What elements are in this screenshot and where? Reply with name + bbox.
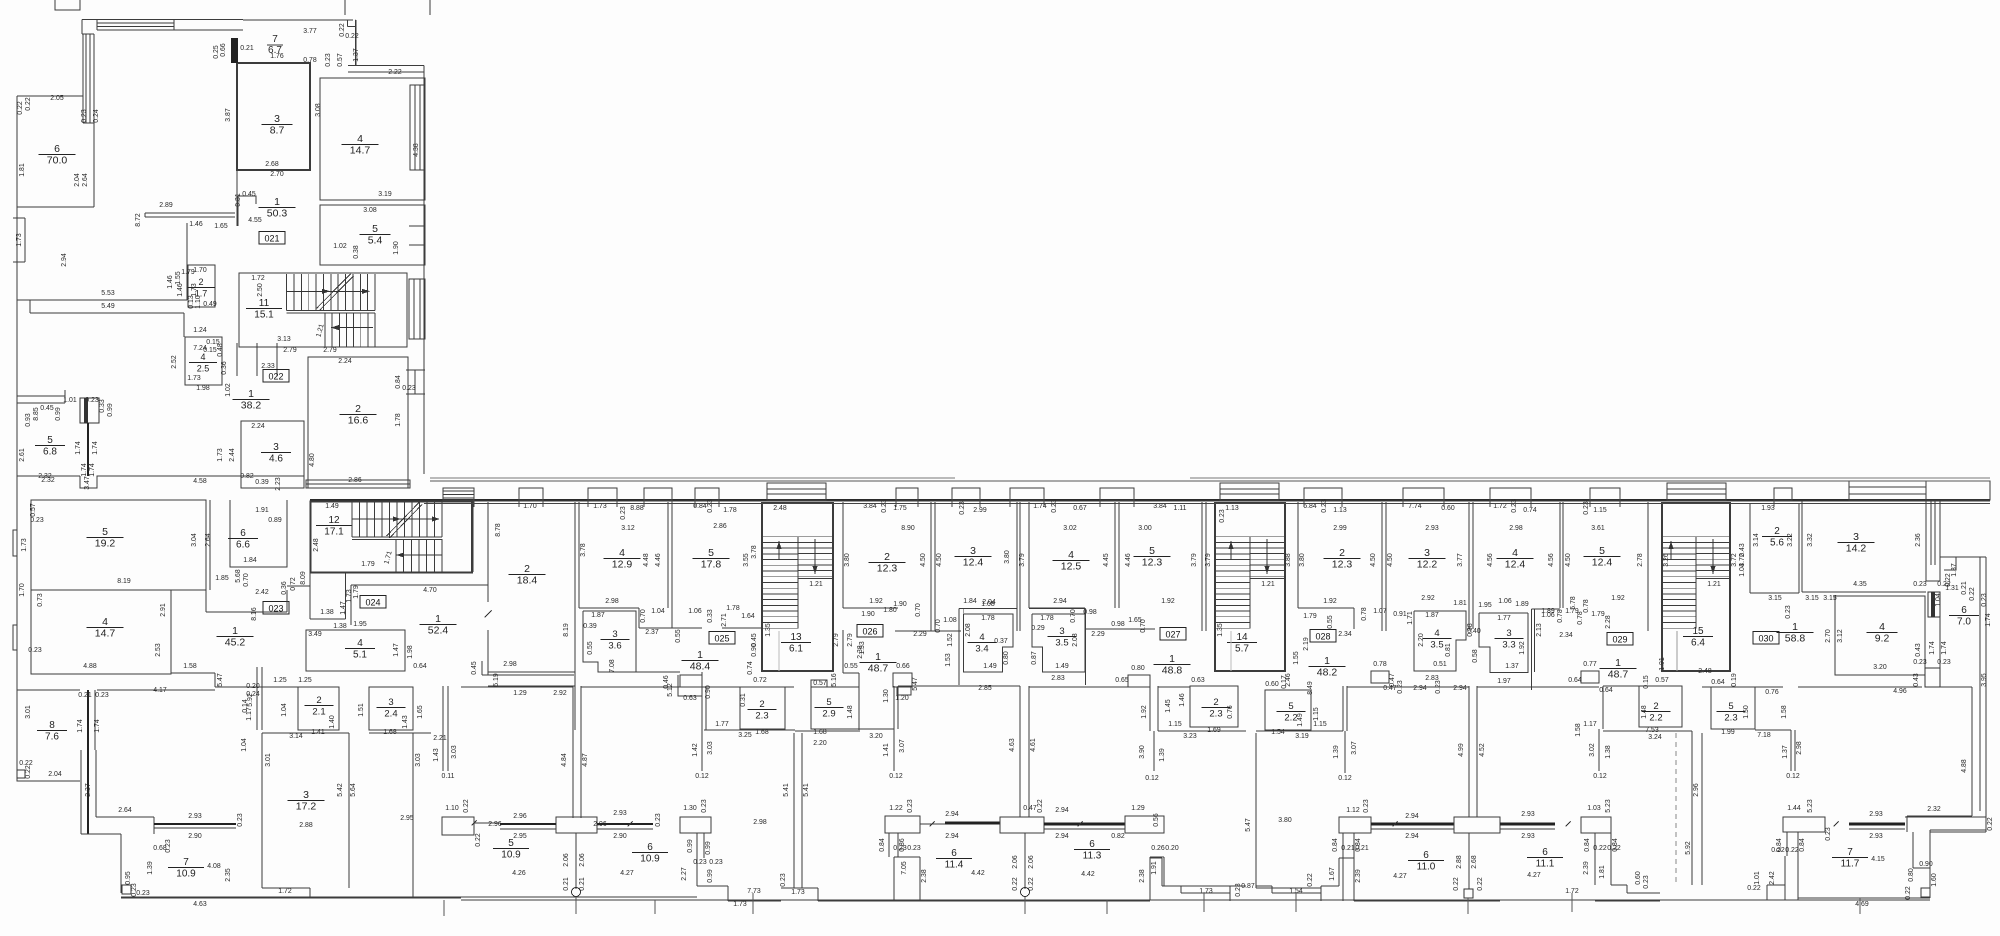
svg-text:0.22: 0.22: [1477, 877, 1484, 891]
svg-text:1.73: 1.73: [1199, 888, 1213, 895]
svg-text:2.64: 2.64: [82, 173, 89, 187]
svg-text:8: 8: [49, 720, 55, 731]
svg-text:1.35: 1.35: [765, 623, 772, 637]
svg-text:18.4: 18.4: [517, 575, 538, 587]
svg-text:0.63: 0.63: [683, 695, 697, 702]
svg-text:4.88: 4.88: [83, 663, 97, 670]
svg-text:1.43: 1.43: [433, 748, 440, 762]
svg-text:1.41: 1.41: [883, 743, 890, 757]
svg-text:4.50: 4.50: [920, 553, 927, 567]
svg-text:2.94: 2.94: [1055, 833, 1069, 840]
svg-text:2.88: 2.88: [299, 822, 313, 829]
svg-text:2.79: 2.79: [833, 633, 840, 647]
svg-text:0.57: 0.57: [30, 503, 37, 517]
svg-text:0.23: 0.23: [237, 813, 244, 827]
svg-text:2.37: 2.37: [85, 783, 92, 797]
svg-text:4.50: 4.50: [1387, 553, 1394, 567]
svg-text:6.8: 6.8: [43, 447, 57, 458]
svg-text:1.79: 1.79: [1591, 611, 1605, 618]
svg-text:1.92: 1.92: [1141, 705, 1148, 719]
svg-text:0.21: 0.21: [1355, 845, 1369, 852]
svg-text:1.21: 1.21: [1707, 581, 1721, 588]
svg-text:2.2: 2.2: [1284, 713, 1297, 724]
svg-text:1.70: 1.70: [193, 267, 207, 274]
svg-text:2.94: 2.94: [1413, 685, 1427, 692]
svg-text:0.76: 0.76: [1227, 705, 1234, 719]
svg-text:7: 7: [272, 34, 278, 45]
svg-text:8.7: 8.7: [270, 125, 285, 137]
svg-text:3.24: 3.24: [1648, 734, 1662, 741]
svg-text:5.47: 5.47: [912, 677, 919, 691]
svg-text:0.25: 0.25: [213, 45, 220, 59]
svg-text:3.90: 3.90: [1139, 745, 1146, 759]
svg-text:2.44: 2.44: [229, 448, 236, 462]
svg-text:5: 5: [1728, 701, 1733, 712]
svg-text:0.72: 0.72: [290, 577, 297, 591]
svg-text:3.15: 3.15: [1805, 595, 1819, 602]
svg-text:2.1: 2.1: [312, 707, 325, 718]
svg-text:021: 021: [264, 234, 279, 244]
svg-text:1.74: 1.74: [1929, 641, 1936, 655]
svg-text:4.08: 4.08: [207, 863, 221, 870]
svg-text:0.67: 0.67: [1073, 505, 1087, 512]
svg-text:2.50: 2.50: [257, 283, 264, 297]
svg-text:3.07: 3.07: [899, 739, 906, 753]
svg-text:5.23: 5.23: [1605, 799, 1612, 813]
svg-text:3: 3: [1853, 531, 1859, 543]
svg-text:1.78: 1.78: [395, 413, 402, 427]
svg-text:2.86: 2.86: [713, 523, 727, 530]
svg-text:3.20: 3.20: [869, 733, 883, 740]
svg-text:0.22: 0.22: [463, 799, 470, 813]
svg-text:0.23: 0.23: [28, 647, 42, 654]
svg-text:4.88: 4.88: [1961, 759, 1968, 773]
svg-text:5.12: 5.12: [667, 683, 674, 697]
svg-text:1.03: 1.03: [1587, 805, 1601, 812]
svg-text:3.00: 3.00: [1138, 525, 1152, 532]
svg-text:0.23: 0.23: [325, 53, 332, 67]
svg-text:1.72: 1.72: [278, 888, 292, 895]
svg-text:1: 1: [248, 388, 254, 400]
svg-text:2.93: 2.93: [1521, 811, 1535, 818]
svg-text:1: 1: [1324, 655, 1330, 667]
svg-text:0.23: 0.23: [1785, 605, 1792, 619]
svg-text:2.94: 2.94: [1405, 833, 1419, 840]
svg-text:1.55: 1.55: [1293, 651, 1300, 665]
svg-text:1.52: 1.52: [947, 633, 954, 647]
svg-text:4.96: 4.96: [1893, 688, 1907, 695]
svg-text:0.22: 0.22: [1785, 847, 1799, 854]
svg-text:4.63: 4.63: [193, 901, 207, 908]
svg-text:0.64: 0.64: [413, 663, 427, 670]
svg-text:0.99: 0.99: [107, 403, 114, 417]
svg-text:4.56: 4.56: [1548, 553, 1555, 567]
svg-text:1.20: 1.20: [895, 695, 909, 702]
svg-text:4: 4: [1879, 621, 1885, 633]
svg-text:0.78: 0.78: [1373, 661, 1387, 668]
svg-text:0.66: 0.66: [896, 663, 910, 670]
svg-text:1.39: 1.39: [147, 861, 154, 875]
svg-text:0.70: 0.70: [640, 609, 647, 623]
svg-text:0.91: 0.91: [1393, 611, 1407, 618]
svg-text:19.2: 19.2: [95, 538, 116, 550]
svg-text:2: 2: [316, 695, 321, 706]
svg-text:2.9: 2.9: [822, 709, 835, 720]
svg-text:1.38: 1.38: [1605, 745, 1612, 759]
svg-text:1.15: 1.15: [1168, 721, 1182, 728]
svg-text:0.29: 0.29: [1031, 625, 1045, 632]
svg-text:2.28: 2.28: [1605, 615, 1612, 629]
svg-text:4: 4: [102, 616, 108, 628]
svg-text:4: 4: [619, 547, 625, 559]
svg-text:0.23: 0.23: [402, 385, 416, 392]
svg-text:1.81: 1.81: [1599, 865, 1606, 879]
svg-text:0.22: 0.22: [1969, 587, 1976, 601]
svg-text:8.90: 8.90: [901, 525, 915, 532]
svg-text:3.80: 3.80: [1004, 550, 1011, 564]
svg-text:1.21: 1.21: [1261, 581, 1275, 588]
svg-text:3.77: 3.77: [303, 28, 317, 35]
svg-text:2.64: 2.64: [205, 533, 212, 547]
svg-text:2.94: 2.94: [945, 811, 959, 818]
svg-text:4.45: 4.45: [1103, 553, 1110, 567]
svg-text:2.24: 2.24: [338, 358, 352, 365]
svg-text:2.3: 2.3: [755, 711, 768, 722]
svg-text:2.06: 2.06: [579, 853, 586, 867]
svg-text:2.79: 2.79: [283, 347, 297, 354]
svg-text:50.3: 50.3: [267, 208, 288, 220]
svg-text:1.60: 1.60: [1931, 873, 1938, 887]
svg-text:3.88: 3.88: [1285, 553, 1292, 567]
svg-text:1.78: 1.78: [723, 507, 737, 514]
svg-text:0.77: 0.77: [1583, 661, 1597, 668]
svg-text:1.43: 1.43: [402, 715, 409, 729]
svg-text:2.48: 2.48: [773, 505, 787, 512]
svg-text:8.19: 8.19: [563, 623, 570, 637]
svg-text:11.4: 11.4: [945, 860, 964, 871]
svg-text:0.22: 0.22: [1307, 873, 1314, 887]
svg-text:2: 2: [1213, 697, 1218, 708]
svg-text:12.4: 12.4: [1505, 559, 1526, 571]
svg-text:6: 6: [240, 528, 246, 539]
svg-text:48.7: 48.7: [1608, 669, 1629, 681]
svg-text:4: 4: [1068, 549, 1074, 561]
svg-text:3.3: 3.3: [1502, 640, 1515, 651]
svg-text:4.26: 4.26: [512, 870, 526, 877]
svg-text:2.96: 2.96: [1693, 783, 1700, 797]
svg-text:2.99: 2.99: [1333, 525, 1347, 532]
svg-text:6: 6: [647, 842, 653, 853]
svg-text:1.92: 1.92: [1519, 641, 1526, 655]
svg-text:1.42: 1.42: [692, 743, 699, 757]
svg-text:4.80: 4.80: [309, 453, 316, 467]
svg-text:2.3: 2.3: [1209, 709, 1222, 720]
svg-text:1.46: 1.46: [1179, 693, 1186, 707]
svg-text:5: 5: [47, 435, 53, 446]
svg-text:1: 1: [1615, 657, 1621, 669]
svg-text:025: 025: [714, 634, 729, 644]
svg-text:1.95: 1.95: [353, 621, 367, 628]
svg-text:5.7: 5.7: [1235, 644, 1249, 655]
svg-text:1.91: 1.91: [1151, 861, 1158, 875]
svg-text:0.12: 0.12: [695, 773, 709, 780]
svg-text:0.87: 0.87: [1031, 651, 1038, 665]
svg-text:0.23: 0.23: [655, 813, 662, 827]
svg-text:2.52: 2.52: [171, 355, 178, 369]
svg-text:3.87: 3.87: [225, 108, 232, 122]
svg-text:1.92: 1.92: [1323, 598, 1337, 605]
svg-text:0.70: 0.70: [915, 603, 922, 617]
svg-text:0.45: 0.45: [471, 661, 478, 675]
svg-text:1.73: 1.73: [733, 901, 747, 908]
svg-text:0.38: 0.38: [353, 245, 360, 259]
svg-text:1.81: 1.81: [19, 163, 26, 177]
svg-text:3.72: 3.72: [1731, 553, 1738, 567]
svg-text:5: 5: [1288, 701, 1293, 712]
svg-text:2.93: 2.93: [1869, 833, 1883, 840]
svg-text:1.58: 1.58: [183, 663, 197, 670]
svg-text:0.22: 0.22: [1037, 799, 1044, 813]
svg-text:70.0: 70.0: [47, 155, 68, 167]
svg-text:022: 022: [268, 372, 283, 382]
svg-text:1.74: 1.74: [1033, 503, 1047, 510]
svg-text:0.23: 0.23: [1825, 827, 1832, 841]
svg-text:0.20: 0.20: [1165, 845, 1179, 852]
svg-text:2.94: 2.94: [1055, 807, 1069, 814]
svg-text:1.29: 1.29: [1131, 805, 1145, 812]
svg-text:1.80: 1.80: [883, 607, 897, 614]
svg-text:1.74: 1.74: [89, 463, 96, 477]
svg-text:1.92: 1.92: [869, 598, 883, 605]
svg-text:1.58: 1.58: [1575, 723, 1582, 737]
svg-text:0.60: 0.60: [1265, 681, 1279, 688]
svg-text:8.16: 8.16: [251, 607, 258, 621]
svg-text:1: 1: [697, 649, 703, 661]
svg-text:5.47: 5.47: [1245, 818, 1252, 832]
svg-text:2.24: 2.24: [251, 423, 265, 430]
svg-text:0.22: 0.22: [1987, 817, 1994, 831]
svg-text:3.95: 3.95: [1981, 673, 1988, 687]
svg-text:0.47: 0.47: [1389, 673, 1396, 687]
svg-text:1.65: 1.65: [417, 705, 424, 719]
svg-text:0.23: 0.23: [30, 517, 44, 524]
svg-text:1.38: 1.38: [333, 623, 347, 630]
svg-text:4.56: 4.56: [1487, 553, 1494, 567]
svg-text:1.81: 1.81: [1453, 600, 1467, 607]
svg-text:5.1: 5.1: [353, 650, 367, 661]
svg-text:1.92: 1.92: [1161, 598, 1175, 605]
svg-text:12.4: 12.4: [1592, 557, 1613, 569]
svg-text:0.99: 0.99: [707, 869, 714, 883]
svg-text:028: 028: [1315, 632, 1330, 642]
svg-text:1.79: 1.79: [361, 561, 375, 568]
svg-text:1.50: 1.50: [1743, 705, 1750, 719]
svg-text:3.5: 3.5: [1430, 640, 1443, 651]
svg-text:48.7: 48.7: [868, 663, 889, 675]
svg-text:1.91: 1.91: [1659, 657, 1666, 671]
svg-text:6: 6: [1423, 850, 1429, 861]
svg-text:7.73: 7.73: [747, 888, 761, 895]
svg-text:1.71: 1.71: [1407, 611, 1414, 625]
svg-text:1.91: 1.91: [255, 507, 269, 514]
svg-text:1.65: 1.65: [214, 223, 228, 230]
svg-text:12: 12: [328, 515, 340, 526]
svg-text:1.73: 1.73: [791, 889, 805, 896]
svg-text:0.66: 0.66: [220, 43, 227, 57]
svg-text:7.08: 7.08: [609, 659, 616, 673]
svg-text:8.78: 8.78: [495, 523, 502, 537]
svg-text:5: 5: [508, 838, 514, 849]
svg-text:4.15: 4.15: [1871, 856, 1885, 863]
svg-text:1.30: 1.30: [883, 689, 890, 703]
svg-text:2.04: 2.04: [74, 173, 81, 187]
svg-text:1.15: 1.15: [1313, 707, 1320, 721]
svg-text:1.04: 1.04: [1935, 593, 1942, 607]
svg-text:3.4: 3.4: [975, 644, 988, 655]
svg-text:6: 6: [54, 143, 60, 155]
svg-text:2.22: 2.22: [388, 69, 402, 76]
svg-text:3.03: 3.03: [707, 741, 714, 755]
svg-text:2.5: 2.5: [197, 364, 210, 374]
svg-text:2.13: 2.13: [1536, 623, 1543, 637]
svg-text:3.01: 3.01: [25, 705, 32, 719]
svg-text:0.12: 0.12: [889, 773, 903, 780]
svg-text:0.33: 0.33: [707, 609, 714, 623]
svg-text:1.84: 1.84: [963, 598, 977, 605]
svg-text:2.94: 2.94: [61, 253, 68, 267]
svg-text:7.0: 7.0: [1957, 617, 1971, 628]
svg-text:2.95: 2.95: [513, 833, 527, 840]
svg-text:2.93: 2.93: [1521, 833, 1535, 840]
svg-text:2.70: 2.70: [1825, 629, 1832, 643]
svg-text:8.72: 8.72: [135, 213, 142, 227]
svg-text:5: 5: [1149, 545, 1155, 557]
svg-text:3.77: 3.77: [1457, 553, 1464, 567]
svg-text:1.79: 1.79: [1303, 613, 1317, 620]
svg-text:0.80: 0.80: [1131, 665, 1145, 672]
svg-text:4.70: 4.70: [423, 587, 437, 594]
svg-text:2.39: 2.39: [1583, 861, 1590, 875]
svg-text:3: 3: [303, 789, 309, 801]
svg-text:6: 6: [951, 848, 957, 859]
svg-text:0.39: 0.39: [583, 623, 597, 630]
svg-text:3.14: 3.14: [1753, 533, 1760, 547]
svg-text:1.98: 1.98: [196, 385, 210, 392]
svg-text:0.56: 0.56: [1153, 813, 1160, 827]
svg-text:1.39: 1.39: [1159, 748, 1166, 762]
svg-text:0.73: 0.73: [37, 593, 44, 607]
svg-text:0.95: 0.95: [125, 871, 132, 885]
svg-text:3.03: 3.03: [451, 745, 458, 759]
svg-text:0.84: 0.84: [1332, 838, 1339, 852]
svg-text:3.13: 3.13: [277, 336, 291, 343]
svg-text:1.75: 1.75: [893, 505, 907, 512]
svg-text:0.51: 0.51: [1433, 661, 1447, 668]
svg-text:1: 1: [232, 625, 238, 637]
svg-text:15: 15: [1692, 626, 1704, 637]
svg-text:1.06: 1.06: [1498, 598, 1512, 605]
svg-text:1.37: 1.37: [1505, 663, 1519, 670]
svg-text:4.61: 4.61: [1030, 738, 1037, 752]
svg-text:1.70: 1.70: [523, 503, 537, 510]
svg-text:2.20: 2.20: [1418, 633, 1425, 647]
svg-text:4: 4: [979, 632, 984, 643]
svg-text:2.29: 2.29: [1091, 631, 1105, 638]
svg-text:4.27: 4.27: [1393, 873, 1407, 880]
svg-text:1.13: 1.13: [1225, 505, 1239, 512]
svg-text:2.96: 2.96: [593, 821, 607, 828]
svg-text:2.94: 2.94: [1405, 813, 1419, 820]
svg-text:12.3: 12.3: [877, 563, 898, 575]
svg-text:0.64: 0.64: [1599, 687, 1613, 694]
svg-text:1.78: 1.78: [726, 605, 740, 612]
svg-text:1.74: 1.74: [94, 719, 101, 733]
svg-text:9.2: 9.2: [1875, 633, 1890, 645]
svg-text:2.95: 2.95: [400, 815, 414, 822]
svg-text:17.2: 17.2: [296, 801, 317, 813]
svg-text:1.25: 1.25: [298, 677, 312, 684]
svg-text:2.64: 2.64: [118, 807, 132, 814]
svg-text:0.43: 0.43: [1915, 643, 1922, 657]
svg-text:1.73: 1.73: [187, 375, 201, 382]
svg-text:8.19: 8.19: [117, 578, 131, 585]
svg-text:5.16: 5.16: [831, 673, 838, 687]
svg-text:0.70: 0.70: [935, 619, 942, 633]
svg-text:6: 6: [1542, 847, 1548, 858]
svg-text:2: 2: [884, 551, 890, 563]
svg-text:1.89: 1.89: [1515, 601, 1529, 608]
svg-text:5.4: 5.4: [368, 235, 383, 247]
svg-text:0.22: 0.22: [25, 765, 32, 779]
svg-text:0.22: 0.22: [17, 101, 24, 115]
svg-text:2.20: 2.20: [813, 740, 827, 747]
svg-text:3: 3: [1424, 547, 1430, 559]
svg-text:5.41: 5.41: [803, 783, 810, 797]
svg-text:0.23: 0.23: [1981, 593, 1988, 607]
svg-text:2.98: 2.98: [1796, 741, 1803, 755]
svg-text:0.15: 0.15: [1643, 675, 1650, 689]
svg-text:1.44: 1.44: [1787, 805, 1801, 812]
svg-text:1.04: 1.04: [281, 703, 288, 717]
svg-text:0.22: 0.22: [1453, 877, 1460, 891]
svg-text:3.14: 3.14: [289, 733, 303, 740]
svg-text:6.4: 6.4: [1691, 638, 1705, 649]
svg-text:1.35: 1.35: [1217, 623, 1224, 637]
svg-text:3: 3: [274, 113, 280, 125]
svg-text:2.37: 2.37: [645, 629, 659, 636]
svg-text:1.73: 1.73: [21, 538, 28, 552]
svg-text:5.92: 5.92: [1685, 841, 1692, 855]
svg-text:12.2: 12.2: [1417, 559, 1438, 571]
svg-text:1.29: 1.29: [513, 690, 527, 697]
svg-text:2.83: 2.83: [1051, 675, 1065, 682]
svg-text:2.04: 2.04: [982, 599, 996, 606]
svg-text:1.79: 1.79: [353, 585, 360, 599]
svg-text:11.1: 11.1: [1536, 859, 1555, 870]
svg-text:3.6: 3.6: [608, 641, 621, 652]
svg-text:1.73: 1.73: [217, 448, 224, 462]
svg-text:0.22: 0.22: [1593, 845, 1607, 852]
svg-text:0.22: 0.22: [1945, 573, 1952, 587]
svg-text:0.55: 0.55: [844, 663, 858, 670]
svg-text:0.22: 0.22: [345, 33, 359, 40]
svg-text:0.55: 0.55: [675, 629, 682, 643]
svg-text:0.57: 0.57: [813, 680, 827, 687]
svg-text:1.90: 1.90: [393, 241, 400, 255]
svg-text:0.43: 0.43: [1913, 673, 1920, 687]
svg-text:1.12: 1.12: [1346, 807, 1360, 814]
svg-text:4.38: 4.38: [413, 143, 420, 157]
